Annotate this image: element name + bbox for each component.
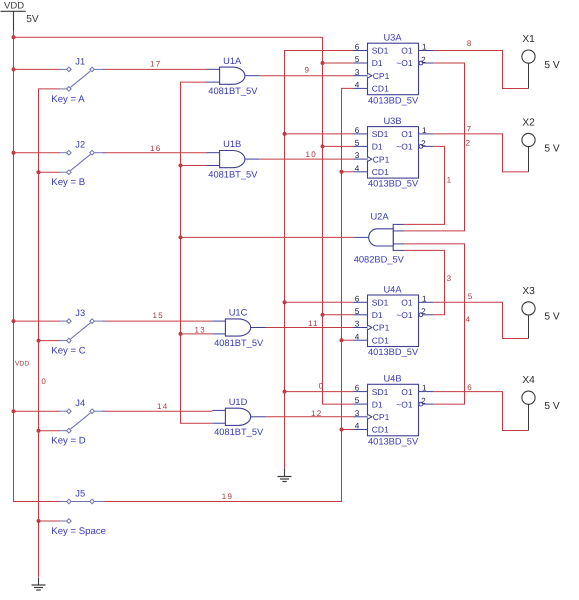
clock input triangle	[368, 73, 372, 78]
power VDD symbol	[1, 1, 39, 31]
svg-text:D1: D1	[372, 58, 383, 68]
power rail VDD vertical wire	[14, 30, 61, 502]
svg-text:4081BT_5V: 4081BT_5V	[214, 427, 264, 437]
svg-text:X2: X2	[522, 118, 535, 129]
svg-text:3: 3	[355, 409, 360, 418]
svg-text:U3B: U3B	[383, 116, 401, 126]
wire U4A SD branch	[285, 301, 354, 303]
pin 1 stub	[419, 50, 434, 52]
svg-text:5 V: 5 V	[544, 312, 559, 323]
svg-text:J1: J1	[75, 56, 85, 66]
svg-text:4013BD_5V: 4013BD_5V	[368, 179, 419, 189]
wire J3 lower branch	[39, 340, 61, 342]
wire net 0 top rail	[14, 36, 323, 38]
wire U4A CD branch	[342, 339, 354, 341]
svg-text:3: 3	[355, 320, 360, 329]
junction net13 U1B	[179, 164, 183, 168]
switch J3	[51, 308, 105, 357]
svg-text:4: 4	[355, 332, 360, 341]
wire J2 lower branch	[39, 171, 61, 173]
svg-text:1: 1	[422, 294, 427, 303]
svg-text:4081BT_5V: 4081BT_5V	[208, 86, 258, 96]
svg-text:6: 6	[355, 126, 360, 135]
ground (SD rail)	[278, 469, 292, 482]
svg-text:VDD: VDD	[4, 1, 24, 12]
pin 1 stub	[419, 391, 434, 393]
svg-text:1: 1	[422, 384, 427, 393]
junction CD U4A	[340, 338, 344, 342]
svg-text:3: 3	[355, 68, 360, 77]
svg-text:U1D: U1D	[229, 397, 248, 407]
wire net 16 J2 left	[14, 152, 61, 154]
svg-text:4: 4	[355, 422, 360, 431]
svg-text:Key = C: Key = C	[51, 346, 85, 357]
wire SD rail to ground	[285, 51, 354, 470]
svg-text:4082BD_5V: 4082BD_5V	[354, 254, 405, 264]
svg-text:5 V: 5 V	[544, 401, 559, 412]
svg-text:2: 2	[421, 307, 426, 316]
junction net13 U2A	[179, 235, 183, 239]
D flip-flop U3A	[354, 33, 434, 106]
svg-text:CP1: CP1	[373, 412, 390, 422]
svg-text:D1: D1	[372, 310, 383, 320]
svg-text:CP1: CP1	[373, 71, 390, 81]
junction gnd J3	[37, 339, 41, 343]
junction gnd J4	[37, 429, 41, 433]
svg-text:0: 0	[41, 377, 47, 386]
junction VDD J3	[12, 319, 16, 323]
svg-text:4013BD_5V: 4013BD_5V	[368, 95, 419, 105]
wire net 14 J4 to U1D	[103, 410, 213, 412]
switch J2	[51, 140, 105, 189]
svg-text:5: 5	[355, 307, 360, 316]
wire net 11 U1C out to U4A CP1	[266, 327, 354, 329]
svg-text:~O1: ~O1	[396, 58, 413, 68]
svg-text:14: 14	[157, 402, 169, 411]
wire net 1 U3B ~O1 to U2A input1	[404, 146, 445, 224]
svg-text:5: 5	[468, 292, 474, 301]
wire net 13 U2A output	[181, 236, 355, 238]
svg-text:U4B: U4B	[383, 374, 401, 384]
svg-text:8: 8	[467, 39, 473, 48]
svg-text:1: 1	[422, 43, 427, 52]
svg-text:2: 2	[421, 55, 426, 64]
svg-text:U1B: U1B	[223, 139, 241, 149]
pin 6 stub	[354, 301, 368, 303]
junction D1 U3A	[321, 61, 325, 65]
pin 4 stub	[354, 87, 368, 89]
svg-text:U1A: U1A	[223, 56, 242, 66]
svg-text:4081BT_5V: 4081BT_5V	[208, 170, 258, 180]
junction D1 U4A	[321, 313, 325, 317]
junction CD U3B	[340, 170, 344, 174]
switch J1	[51, 56, 105, 105]
svg-text:CP1: CP1	[373, 323, 390, 333]
wire net 8 U3A O1 to X1	[433, 51, 528, 89]
svg-text:4081BT_5V: 4081BT_5V	[214, 338, 264, 348]
pin 6 stub	[354, 391, 368, 393]
junction CD U4B	[340, 428, 344, 432]
pin 4 stub	[354, 171, 368, 173]
pin 6 stub	[354, 50, 368, 52]
wire ground rail (net 0)	[39, 89, 61, 577]
svg-text:SD1: SD1	[372, 46, 389, 56]
probe X1	[522, 34, 560, 88]
svg-text:O1: O1	[401, 129, 413, 139]
svg-text:10: 10	[306, 150, 318, 159]
probe X2	[522, 118, 560, 172]
svg-text:D1: D1	[372, 142, 383, 152]
svg-text:5: 5	[355, 55, 360, 64]
junction net13 U1C	[179, 332, 183, 336]
wire net 13 U1B branch	[181, 165, 207, 167]
svg-text:2: 2	[466, 138, 472, 147]
pin 1 stub	[419, 133, 434, 135]
svg-text:D1: D1	[372, 399, 383, 409]
svg-text:VDD: VDD	[15, 361, 29, 368]
inversion bubble pin 2	[419, 61, 423, 65]
inversion bubble pin 2	[419, 145, 423, 149]
junction VDD J1	[12, 67, 16, 71]
pin 5 stub	[354, 403, 368, 405]
wire net 12 U1D out to U4B CP1	[266, 416, 354, 418]
svg-text:11: 11	[308, 319, 319, 328]
svg-text:~O1: ~O1	[396, 142, 413, 152]
wire net 14 J4 left	[14, 410, 61, 412]
svg-text:J2: J2	[75, 140, 85, 150]
switch J4	[51, 398, 105, 447]
svg-text:O1: O1	[401, 298, 413, 308]
AND gate U1A	[207, 56, 260, 96]
wire net 15 J3 left	[14, 320, 61, 322]
wire net 7 U3B O1 to X2	[433, 134, 528, 172]
svg-text:~O1: ~O1	[396, 399, 413, 409]
svg-text:3: 3	[355, 151, 360, 160]
svg-text:U4A: U4A	[383, 284, 402, 294]
svg-text:4: 4	[355, 81, 360, 90]
junction VDD J4	[12, 409, 16, 413]
svg-text:6: 6	[355, 384, 360, 393]
svg-text:J4: J4	[75, 398, 85, 408]
inversion bubble pin 2	[419, 402, 423, 406]
wire U4A D1 branch	[323, 314, 354, 316]
svg-text:CD1: CD1	[372, 425, 389, 435]
probe X3	[522, 286, 560, 339]
AND gate U1C	[212, 308, 265, 348]
svg-text:CD1: CD1	[372, 335, 389, 345]
junction D1 U3B	[321, 144, 325, 148]
svg-text:6: 6	[355, 294, 360, 303]
wire net 19 CD rail	[103, 88, 354, 501]
pin 5 stub	[354, 145, 368, 147]
svg-text:5V: 5V	[26, 14, 39, 25]
junction SD U4B	[283, 390, 287, 394]
wire U3B CD branch	[342, 171, 354, 173]
wire U4B SD branch	[285, 391, 354, 393]
clock input triangle	[368, 157, 372, 162]
svg-text:3: 3	[447, 274, 453, 283]
svg-text:0: 0	[319, 382, 325, 391]
svg-text:2: 2	[421, 139, 426, 148]
junction VDD top rail	[12, 35, 16, 39]
svg-text:CD1: CD1	[372, 84, 389, 94]
svg-text:5: 5	[355, 139, 360, 148]
switch J5	[51, 489, 106, 538]
svg-text:J3: J3	[75, 308, 85, 318]
AND gate U1B	[207, 139, 260, 179]
svg-text:5 V: 5 V	[544, 60, 559, 71]
svg-text:Key = D: Key = D	[51, 436, 85, 447]
svg-text:U1C: U1C	[229, 308, 248, 318]
svg-text:7: 7	[467, 125, 473, 134]
AND gate U2A (4-input)	[354, 211, 405, 264]
svg-text:CD1: CD1	[372, 167, 389, 177]
svg-text:4: 4	[355, 164, 360, 173]
wire net 9 U1A out to U3A CP1	[259, 75, 353, 77]
svg-text:J5: J5	[75, 489, 85, 499]
svg-text:5: 5	[355, 396, 360, 405]
svg-text:SD1: SD1	[372, 129, 389, 139]
pin 6 stub	[354, 133, 368, 135]
AND gate U1D	[212, 397, 265, 437]
svg-text:O1: O1	[401, 46, 413, 56]
svg-text:Key = A: Key = A	[51, 94, 85, 105]
pin 5 stub	[354, 62, 368, 64]
clock input triangle	[368, 325, 372, 330]
junction gnd J5	[37, 519, 41, 523]
svg-text:X1: X1	[522, 34, 535, 45]
svg-text:4013BD_5V: 4013BD_5V	[368, 347, 419, 357]
svg-text:9: 9	[305, 66, 311, 75]
D flip-flop U4B	[354, 374, 434, 447]
wire net 13 rail	[181, 82, 213, 423]
svg-text:O1: O1	[401, 387, 413, 397]
svg-text:16: 16	[150, 144, 162, 153]
wire net 10 U1B out to U3B CP1	[259, 158, 353, 160]
pin 5 stub	[354, 314, 368, 316]
wire J4 lower branch	[39, 430, 61, 432]
svg-text:17: 17	[150, 60, 162, 69]
svg-text:X4: X4	[522, 375, 535, 386]
svg-text:1: 1	[447, 175, 453, 184]
wire net 17 J1 to U1A	[103, 68, 207, 70]
pin 3 stub	[354, 158, 368, 160]
wire J5 lower branch	[39, 520, 61, 522]
pin 3 stub	[354, 327, 368, 329]
svg-text:~O1: ~O1	[396, 310, 413, 320]
wire U3B D1 branch	[323, 145, 354, 147]
wire net 3 U2A input4 to U4A ~O1	[404, 250, 445, 314]
svg-text:5 V: 5 V	[544, 143, 559, 154]
wire net 15 J3 to U1C	[103, 320, 213, 322]
pin 3 stub	[354, 416, 368, 418]
junction VDD J2	[12, 151, 16, 155]
inversion bubble pin 2	[419, 313, 423, 317]
svg-text:2: 2	[421, 397, 426, 406]
D flip-flop U3B	[354, 116, 434, 189]
pin 4 stub	[354, 339, 368, 341]
svg-text:4: 4	[466, 315, 472, 324]
clock input triangle	[368, 414, 372, 419]
svg-text:19: 19	[222, 492, 234, 501]
wire net 6 U4B O1 to X4	[433, 392, 528, 431]
wire U3B SD branch	[285, 133, 354, 135]
wire U4B CD branch	[342, 429, 354, 431]
wire net 13 U1C branch	[181, 333, 213, 335]
pin 4 stub	[354, 429, 368, 431]
wire net 17 J1 left	[14, 68, 61, 70]
svg-text:U3A: U3A	[383, 33, 402, 43]
wire U3A D1 branch	[323, 62, 354, 64]
pin 3 stub	[354, 75, 368, 77]
svg-text:Key = B: Key = B	[51, 177, 85, 188]
wire net 2 U3A ~O1 to U2A input2	[404, 63, 465, 231]
svg-text:CP1: CP1	[373, 154, 390, 164]
wire net 5 U4A O1 to X3	[433, 302, 528, 338]
svg-text:SD1: SD1	[372, 298, 389, 308]
svg-text:6: 6	[467, 383, 473, 392]
svg-text:1: 1	[422, 126, 427, 135]
wire net 16 J2 to U1B	[103, 152, 207, 154]
svg-text:6: 6	[355, 43, 360, 52]
junction SD U3B	[283, 132, 287, 136]
D flip-flop U4A	[354, 284, 434, 357]
svg-text:15: 15	[153, 311, 165, 320]
svg-text:U2A: U2A	[370, 211, 389, 221]
svg-text:X3: X3	[522, 286, 535, 297]
svg-text:Key = Space: Key = Space	[51, 526, 106, 537]
ground (bottom)	[32, 578, 46, 591]
svg-text:SD1: SD1	[372, 387, 389, 397]
wire net 4 U2A input3 to U4B ~O1	[404, 244, 465, 404]
probe X4	[522, 375, 560, 430]
svg-text:13: 13	[195, 326, 207, 335]
junction SD U4A	[283, 300, 287, 304]
svg-text:4013BD_5V: 4013BD_5V	[368, 436, 419, 446]
svg-text:12: 12	[311, 409, 323, 418]
junction gnd J2	[37, 170, 41, 174]
pin 1 stub	[419, 301, 434, 303]
wire net 0 D1 rail	[323, 37, 354, 404]
